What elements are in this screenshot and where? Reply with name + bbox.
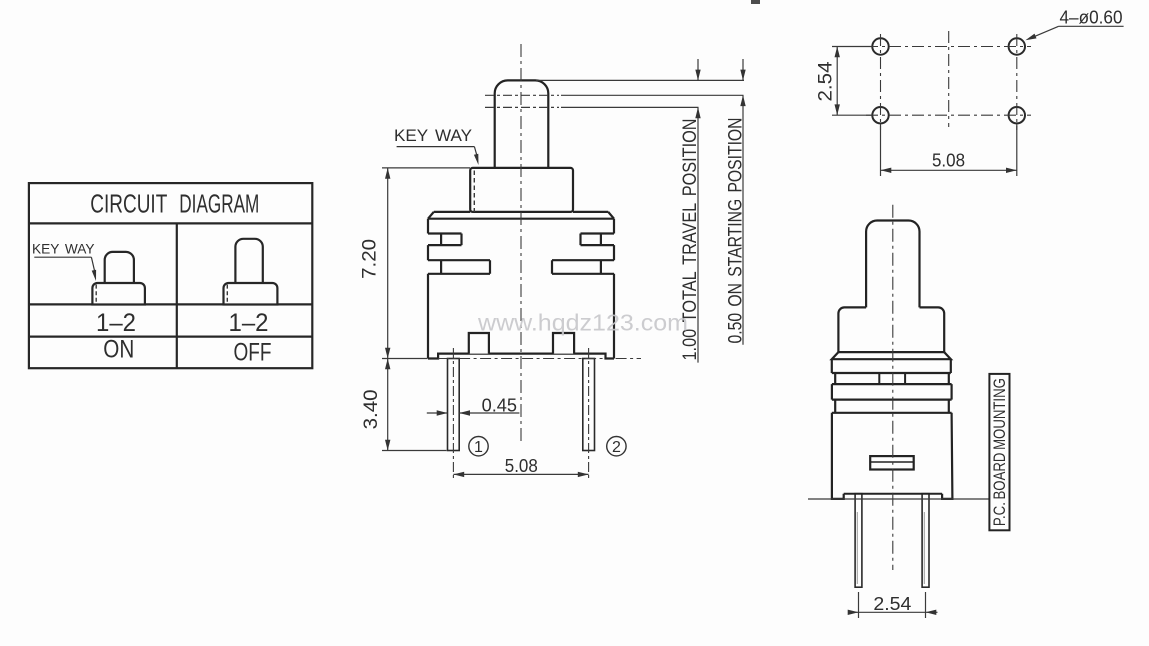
svg-text:4–ø0.60: 4–ø0.60 [1060, 7, 1123, 28]
front side walls between grooves [428, 245, 614, 260]
hole column centerline left [880, 34, 882, 130]
3.40 extension line bottom [382, 450, 447, 452]
KEY WAY leader arrowhead (table) [92, 270, 96, 281]
svg-text:KEY WAY: KEY WAY [394, 126, 472, 145]
arrow right 5.08 front [578, 472, 589, 477]
side pin 1 [855, 494, 862, 588]
hole top-right [1009, 38, 1025, 54]
KEY WAY leader arrowhead (front view) [474, 154, 479, 165]
front hidden bottom dash-dot line [438, 358, 605, 360]
arrow right 2.54 bottom [848, 610, 859, 615]
7.20 extension line top [382, 167, 470, 169]
KEY WAY leader (table) [91, 257, 95, 274]
4-dia leader diagonal [1029, 26, 1059, 39]
hole bottom-left [872, 107, 888, 123]
arrow up 2.54 [835, 47, 840, 58]
front plunger [495, 80, 549, 168]
arrow right 5.08 top right [1006, 168, 1017, 173]
arrow down 2.54 [835, 104, 840, 115]
side band C [832, 384, 952, 400]
svg-text:2.54: 2.54 [816, 61, 837, 101]
arrow up 7.20 [385, 168, 390, 179]
button OFF plunger [235, 239, 262, 283]
0.45 underline / right arrow line [459, 412, 519, 414]
front lower side walls [428, 274, 614, 359]
dash line right of body bottom [616, 358, 641, 360]
svg-text:1: 1 [474, 439, 483, 456]
arrow right 0.45 [437, 410, 448, 415]
svg-text:0.45: 0.45 [482, 395, 517, 416]
side cap [838, 307, 944, 352]
5.08 extension right [1016, 124, 1018, 176]
hole row centerline top [866, 46, 1031, 48]
svg-text:ON: ON [103, 335, 134, 363]
dimension line 0.50 on starting [742, 95, 744, 344]
arrow 4-dia leader [1025, 34, 1036, 41]
svg-text:3.40: 3.40 [361, 389, 382, 429]
travel line L2 dash-dot across plunger [485, 94, 559, 96]
artifact mark top edge [751, 0, 760, 4]
front bottom step [428, 354, 614, 359]
front groove A right [581, 234, 615, 246]
travel line L1 (top of plunger level) [536, 79, 744, 81]
arrow shaft above at x743 [742, 59, 744, 80]
5.08 dimension line top right [881, 169, 1017, 171]
table column divider [176, 223, 178, 368]
table row line under 1-2 [29, 336, 312, 338]
KEY WAY leader (front view) [474, 147, 477, 158]
button ON plunger [105, 252, 134, 283]
hole bottom-right [1009, 107, 1025, 123]
side body [832, 413, 953, 499]
arrow down at 698 [695, 70, 700, 81]
side band B keyway box [879, 373, 905, 384]
table row line under pictures [29, 303, 312, 305]
KEY WAY underline (table) [34, 256, 91, 258]
KEY WAY underline (front view) [397, 146, 475, 148]
hole top-left [872, 38, 888, 54]
side bottom recess line [844, 493, 942, 495]
button ON keyway dashed line [95, 285, 97, 304]
arrow left 2.54 bottom [926, 610, 937, 615]
2.54 extension bottom [832, 114, 872, 116]
2.54 extension top [832, 46, 872, 48]
front flange [428, 212, 614, 219]
travel line L2 solid [561, 94, 744, 96]
arrow left 0.45 [459, 410, 470, 415]
side plunger [866, 221, 919, 308]
svg-text:KEY WAY: KEY WAY [32, 242, 95, 257]
arrowheads front view [385, 70, 746, 478]
front vertical centerline [520, 44, 522, 444]
title CIRCUIT DIAGRAM [90, 191, 259, 219]
svg-text:CIRCUIT: CIRCUIT [90, 191, 167, 219]
5.08 extension left [880, 124, 882, 176]
pin circle 1 [469, 437, 488, 456]
0.45 left arrow line [427, 412, 448, 414]
PCB line [808, 498, 989, 500]
arrow up 3.40 [385, 359, 390, 370]
2.54 extension pin1 [858, 592, 860, 618]
front body upper side walls [428, 219, 614, 234]
3.40 extension line middle [382, 358, 428, 360]
front keyway dashed line [473, 171, 475, 213]
svg-text:P.C. BOARD MOUNTING: P.C. BOARD MOUNTING [991, 378, 1009, 526]
2.54 dimension line [836, 47, 838, 116]
travel line L3 solid [561, 106, 699, 108]
svg-text:2.54: 2.54 [873, 593, 911, 614]
arrow up at 698 (1.00) [695, 107, 700, 118]
svg-text:1–2: 1–2 [229, 309, 269, 337]
arrow left 5.08 front [453, 472, 464, 477]
arrow shaft above at x698 [697, 59, 699, 80]
front pin 1 centerline [452, 348, 454, 481]
travel line L3 dash-dot across plunger [485, 106, 559, 108]
table outer border [29, 183, 312, 368]
table row line under title [29, 222, 312, 224]
front pin 2 [583, 359, 595, 451]
hole row centerline bottom [866, 114, 1031, 116]
7.20 / 3.40 dimension vertical line [387, 168, 389, 451]
button ON base [92, 283, 144, 305]
side band A [832, 359, 951, 373]
front groove B right [552, 260, 614, 274]
side band D inset [832, 400, 952, 413]
svg-text:5.08: 5.08 [505, 455, 538, 476]
svg-text:OFF: OFF [234, 338, 272, 366]
front pin 1 [448, 359, 460, 451]
front pin 2 centerline [588, 348, 590, 481]
arrow up at 743 (0.50) [740, 95, 745, 106]
pin circle 2 [607, 437, 626, 456]
side pin 1 inner shading [856, 512, 858, 584]
svg-text:7.20: 7.20 [360, 239, 381, 279]
front groove A left [428, 234, 462, 246]
arrow down at 743 [740, 70, 745, 81]
front bottom tab left [469, 333, 489, 354]
svg-text:5.08: 5.08 [932, 150, 965, 171]
front bottom tab right [553, 333, 574, 354]
4-dia leader underline [1059, 25, 1124, 27]
svg-text:DIAGRAM: DIAGRAM [179, 191, 259, 219]
side slot [870, 456, 914, 469]
button OFF base [224, 283, 278, 305]
side band B inset [832, 373, 952, 384]
2.54 dimension line bottom [848, 611, 938, 613]
side vertical centerline [892, 205, 894, 570]
front groove B left [428, 260, 490, 274]
arrow left 5.08 top right [881, 168, 892, 173]
pattern middle vertical centerline [948, 31, 950, 127]
side pin 2 inner shading [923, 512, 925, 584]
svg-text:1–2: 1–2 [96, 309, 136, 337]
svg-text:www.hqdz123.com: www.hqdz123.com [477, 310, 688, 336]
svg-text:2: 2 [612, 439, 621, 456]
5.08 dimension line (front) [453, 473, 588, 475]
side chamfer ring [832, 352, 951, 359]
side slot inner line [870, 461, 914, 463]
arrow down 7.20 [385, 348, 390, 359]
hole column centerline right [1016, 34, 1018, 130]
front keyway base [470, 168, 573, 212]
button OFF keyway dashed line [226, 285, 228, 304]
arrow down 3.40 [385, 440, 390, 451]
side pin 2 [922, 494, 929, 588]
2.54 extension pin2 [925, 592, 927, 618]
dimension line 1.00 total travel [697, 107, 699, 362]
P.C. BOARD MOUNTING box [989, 374, 1009, 530]
svg-text:0.50 ON STARTING POSITION: 0.50 ON STARTING POSITION [726, 118, 747, 344]
